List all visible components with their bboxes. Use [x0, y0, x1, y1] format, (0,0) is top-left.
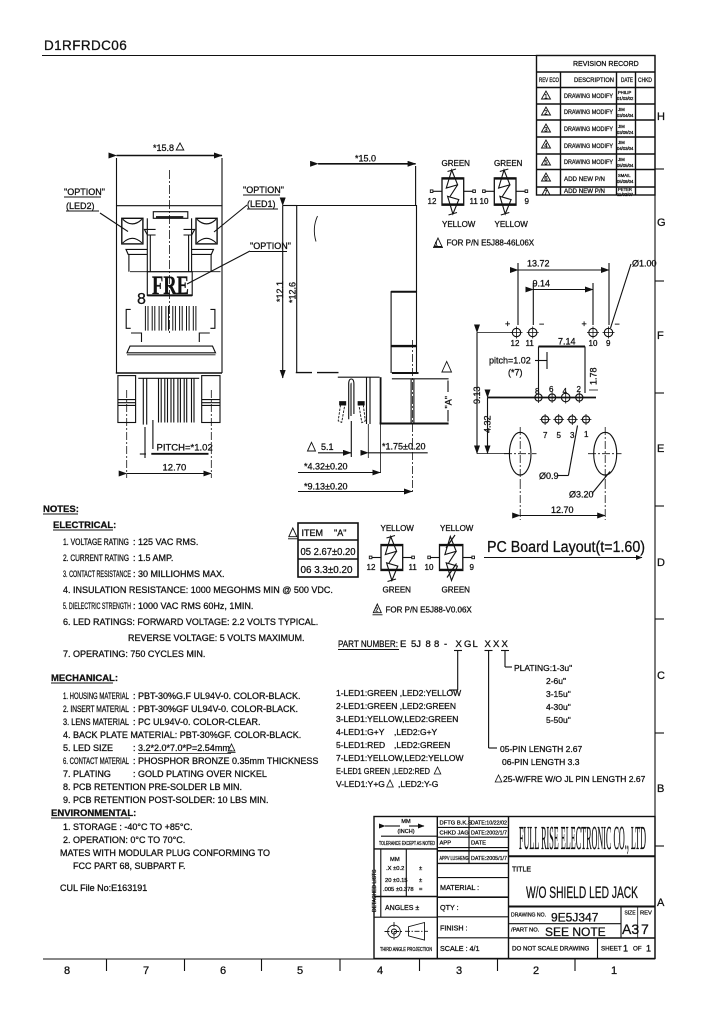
svg-text:10: 10: [589, 339, 598, 348]
svg-text:8: 8: [137, 291, 146, 308]
svg-text:12: 12: [428, 197, 437, 206]
svg-text:+: +: [505, 319, 510, 329]
svg-text:MATES WITH MODULAR PLUG CONFOR: MATES WITH MODULAR PLUG CONFORMING TO: [60, 848, 270, 858]
svg-text:4. INSULATION RESISTANCE: 1000: 4. INSULATION RESISTANCE: 1000 MEGOHMS M…: [63, 585, 333, 595]
svg-text:X: X: [456, 639, 463, 650]
svg-text:E-LED1 GREEN ,LED2:RED: E-LED1 GREEN ,LED2:RED: [336, 766, 430, 776]
svg-text:11/02/07: 11/02/07: [617, 192, 634, 197]
svg-text:OF: OF: [633, 946, 642, 953]
svg-text:"A": "A": [334, 528, 346, 538]
svg-text:*1.75±0.20: *1.75±0.20: [382, 442, 425, 452]
svg-text:9: 9: [470, 563, 475, 572]
footprint box 7.14: [558, 337, 576, 347]
svg-text:3. LENS MATERIAL: 3. LENS MATERIAL: [63, 717, 129, 727]
svg-text:ENVIRONMENTAL:: ENVIRONMENTAL:: [51, 808, 136, 819]
svg-text:4: 4: [563, 387, 568, 396]
pitch=1.02 (*7) label: [489, 356, 531, 378]
svg-text:C: C: [657, 670, 665, 682]
rear peg centerline: [412, 340, 414, 494]
svg-text:PC Board Layout(t=1.60): PC Board Layout(t=1.60): [487, 539, 645, 556]
svg-text:8: 8: [426, 639, 431, 650]
svg-text:2. CURRENT RATING: 2. CURRENT RATING: [63, 553, 129, 563]
svg-text:: 1.5 AMP.: : 1.5 AMP.: [133, 553, 173, 563]
svg-text:H: H: [657, 111, 665, 123]
dim *15.0: [355, 154, 376, 164]
svg-text:E: E: [400, 639, 406, 650]
svg-text:FCC PART 68, SUBPART F.: FCC PART 68, SUBPART F.: [73, 861, 186, 871]
svg-text:,LED2:Y-G: ,LED2:Y-G: [398, 779, 438, 789]
svg-text:04/03/04: 04/03/04: [617, 146, 634, 151]
svg-text:APPV LUSHENG: APPV LUSHENG: [440, 856, 469, 862]
svg-text:5. DIELECTRIC STRENGTH: 5. DIELECTRIC STRENGTH: [63, 601, 131, 611]
A reference top line: [392, 378, 449, 380]
svg-text:: 3.2*2.0*7.0*P=2.54mm.: : 3.2*2.0*7.0*P=2.54mm.: [133, 743, 232, 753]
left column: units and tolerance: [380, 849, 382, 917]
svg-text:1: 1: [435, 242, 438, 248]
dim 5.1 with rev triangle: [308, 442, 316, 451]
svg-text:(LED2): (LED2): [66, 201, 95, 211]
svg-text:A3: A3: [622, 921, 639, 937]
svg-text:9.14: 9.14: [533, 279, 551, 289]
svg-text:B: B: [657, 783, 664, 795]
ENVIRONMENTAL heading: [51, 808, 136, 819]
PC Board Layout title: [487, 539, 645, 556]
revision rows: triangles, descriptions, dates: [564, 93, 613, 195]
svg-text:1: 1: [623, 944, 628, 954]
svg-text:"A": "A": [444, 396, 454, 408]
svg-text:8: 8: [64, 965, 70, 977]
svg-text:X: X: [502, 639, 509, 650]
svg-text:PHILIP: PHILIP: [618, 90, 631, 95]
frame right line: [654, 56, 656, 960]
svg-text:6. LED RATINGS: FORWARD VOLTAG: 6. LED RATINGS: FORWARD VOLTAGE: 2.2 VOL…: [63, 617, 318, 627]
dim Ø1.00 with leader: [632, 259, 657, 269]
svg-text:GREEN: GREEN: [442, 159, 471, 168]
LED pin 9: [603, 327, 615, 339]
svg-text:: 125 VAC RMS.: : 125 VAC RMS.: [133, 537, 198, 547]
frame top line: [42, 55, 655, 57]
svg-text:(INCH): (INCH): [397, 829, 414, 835]
svg-text:2: 2: [577, 385, 582, 394]
latch hook arch: [349, 379, 354, 419]
middle column rows: [468, 817, 470, 864]
ITEM "A" table: [298, 523, 358, 577]
svg-text:FINISH :: FINISH :: [440, 924, 468, 933]
svg-text:7: 7: [143, 965, 149, 977]
svg-text:JIM: JIM: [618, 140, 625, 145]
PART NUMBER heading: [338, 639, 509, 650]
label OPTION (LED1): [243, 185, 284, 209]
rev triangle at item table: [289, 528, 297, 537]
contact row line: [488, 397, 597, 399]
extension lines LED pins: [517, 263, 519, 325]
7 contact pins bottom: [143, 378, 194, 424]
svg-text:DATE:2005/1/7: DATE:2005/1/7: [471, 856, 507, 862]
svg-text:10: 10: [425, 563, 434, 572]
drawing no row: [511, 913, 546, 919]
dim *9.13±0.20: [304, 482, 347, 492]
svg-text:DRAWING MODIFY: DRAWING MODIFY: [564, 109, 613, 116]
svg-text:MATERIAL :: MATERIAL :: [440, 883, 479, 892]
svg-text:(LED1): (LED1): [247, 199, 276, 209]
body bottom dashes: [296, 372, 312, 374]
svg-text:05/05/04: 05/05/04: [617, 163, 634, 168]
plating code list: [514, 663, 572, 725]
svg-text:QTY :: QTY :: [440, 903, 459, 912]
zone ticks bottom border: [107, 959, 576, 971]
svg-text:03/04/04: 03/04/04: [617, 113, 634, 118]
latch feet: [338, 405, 345, 423]
svg-text:±: ±: [419, 878, 422, 884]
svg-text:REVISION RECORD: REVISION RECORD: [573, 61, 639, 68]
svg-text:7: 7: [641, 921, 649, 937]
bottom thick reference line: [380, 423, 449, 425]
svg-text:pitch=1.02: pitch=1.02: [489, 356, 531, 366]
svg-text:*12.6: *12.6: [288, 282, 298, 303]
svg-text:REV ECO: REV ECO: [539, 77, 559, 84]
svg-text:GREEN: GREEN: [494, 159, 523, 168]
title: [512, 867, 531, 874]
pitch dim extension lines: [144, 427, 146, 458]
note triangle for P/N E5J88-V0.06X: [373, 604, 381, 613]
svg-text:4: 4: [377, 965, 383, 977]
svg-text:G: G: [657, 217, 666, 229]
svg-text:1: 1: [611, 965, 617, 977]
dim Ø3.20 leader: [569, 490, 594, 500]
svg-text:+: +: [582, 319, 587, 329]
svg-text:W/O SHIELD LED JACK: W/O SHIELD LED JACK: [526, 884, 638, 902]
svg-text:1. VOLTAGE RATING: 1. VOLTAGE RATING: [63, 537, 129, 547]
svg-text:13.72: 13.72: [527, 259, 550, 269]
svg-text:YELLOW: YELLOW: [381, 524, 415, 533]
front shelf under body: [338, 376, 380, 378]
svg-text:REVERSE VOLTAGE: 5 VOLTS MAXIM: REVERSE VOLTAGE: 5 VOLTS MAXIMUM.: [128, 633, 305, 643]
svg-text:"OPTION": "OPTION": [64, 187, 105, 197]
svg-text:YELLOW: YELLOW: [495, 220, 529, 229]
jack body outline: [117, 206, 223, 373]
svg-text:MM: MM: [390, 857, 400, 863]
svg-text:JIM: JIM: [618, 124, 625, 129]
label OPTION (logo): [250, 241, 291, 251]
note triangle for P/N E5J88-46L06X: [434, 238, 442, 247]
svg-text:DATE: DATE: [621, 77, 633, 84]
dim 12.70: [163, 463, 187, 474]
svg-text:2. OPERATION: 0°C TO 70°C.: 2. OPERATION: 0°C TO 70°C.: [63, 835, 185, 845]
zone ticks right border: [655, 169, 664, 846]
contact comb 8 contacts: [145, 306, 196, 331]
svg-text:8: 8: [434, 639, 439, 650]
svg-text:7. PLATING: 7. PLATING: [63, 769, 111, 779]
bottom row: [512, 946, 590, 953]
svg-text:1: 1: [646, 944, 651, 954]
svg-text:*4.32±0.20: *4.32±0.20: [304, 462, 347, 472]
pin length code list: [500, 744, 646, 784]
svg-text:2-6u": 2-6u": [546, 676, 566, 686]
option code branch lines: [457, 651, 459, 690]
svg-text:10: 10: [480, 197, 489, 206]
svg-text:4-30u": 4-30u": [546, 702, 571, 712]
svg-text:.X ±0.2: .X ±0.2: [386, 866, 404, 872]
svg-text:11: 11: [409, 563, 418, 572]
FRE logo text: [152, 271, 189, 300]
svg-text:*9.13±0.20: *9.13±0.20: [304, 482, 347, 492]
svg-text:25-W/FRE W/O JL PIN LENGTH 2.6: 25-W/FRE W/O JL PIN LENGTH 2.67: [503, 774, 646, 784]
svg-text:8: 8: [535, 387, 540, 396]
zone letters H..A on right border: [657, 111, 666, 909]
svg-text:SCALE : 4/1: SCALE : 4/1: [440, 944, 480, 953]
svg-text:1.78: 1.78: [589, 367, 599, 385]
svg-text:X: X: [485, 639, 492, 650]
svg-text:ADD NEW P/N: ADD NEW P/N: [564, 188, 605, 195]
LED pin 12: [511, 327, 523, 339]
contact pins row 8,6,4,2: [535, 392, 583, 404]
svg-text:Ø0.9: Ø0.9: [539, 471, 559, 481]
environmental notes text: [60, 822, 270, 893]
svg-text:E: E: [657, 443, 664, 455]
svg-text:REV: REV: [640, 911, 652, 917]
svg-text:: PBT-30%GF UL94V-0. COLOR-BLA: : PBT-30%GF UL94V-0. COLOR-BLACK.: [133, 704, 298, 714]
svg-text:7.14: 7.14: [558, 337, 576, 347]
svg-text:: PHOSPHOR BRONZE 0.35mm THICK: : PHOSPHOR BRONZE 0.35mm THICKNESS: [133, 756, 318, 766]
svg-text:TITLE: TITLE: [512, 867, 531, 874]
svg-text:DRAWING MODIFY: DRAWING MODIFY: [564, 143, 613, 150]
svg-text:"OPTION": "OPTION": [243, 185, 284, 195]
svg-text:JIM: JIM: [618, 107, 625, 112]
vertical dim line *12.6: [282, 206, 284, 379]
svg-text:DATE:2002/1/7: DATE:2002/1/7: [471, 831, 507, 837]
svg-text:SMAIL: SMAIL: [618, 173, 631, 178]
third angle projection symbols: [385, 922, 429, 941]
LED pin 11: [527, 327, 539, 339]
svg-text:4.32: 4.32: [483, 415, 493, 433]
rev triangle pin length: [495, 775, 502, 782]
svg-text:1. STORAGE : -40°C TO +85°C.: 1. STORAGE : -40°C TO +85°C.: [63, 822, 193, 832]
svg-text:FRE: FRE: [152, 271, 189, 300]
body bottom line: [116, 372, 222, 374]
step left: [131, 333, 142, 342]
latch ears: [144, 229, 155, 235]
svg-text:5J: 5J: [411, 639, 421, 650]
svg-text:-: -: [444, 639, 447, 650]
rear block: [391, 292, 416, 346]
svg-text:3-15u": 3-15u": [546, 689, 571, 699]
svg-text:NOTES:: NOTES:: [43, 504, 79, 515]
svg-text:7. OPERATING: 750 CYCLES MIN.: 7. OPERATING: 750 CYCLES MIN.: [63, 649, 205, 659]
svg-text:CHKD JAG: CHKD JAG: [440, 831, 470, 837]
rev triangle near A: [442, 362, 452, 373]
svg-text:7-LED1:YELLOW,LED2:YELLOW: 7-LED1:YELLOW,LED2:YELLOW: [336, 753, 464, 763]
A dim bracket: [447, 381, 449, 393]
latch pads: [340, 402, 346, 405]
pcb lock flange left: [126, 309, 131, 328]
svg-text:D: D: [657, 557, 665, 569]
dim *4.32±0.20: [304, 462, 347, 472]
NOTES heading: [43, 504, 79, 515]
dim 13.72: [527, 259, 550, 269]
svg-text:12.70: 12.70: [163, 463, 187, 474]
svg-text:05-PIN LENGTH 2.67: 05-PIN LENGTH 2.67: [500, 744, 582, 754]
svg-text:3. CONTACT RESISTANCE: 3. CONTACT RESISTANCE: [63, 569, 131, 579]
svg-text:,LED2:GREEN: ,LED2:GREEN: [394, 740, 450, 750]
svg-text:ITEM: ITEM: [302, 528, 324, 538]
dim PITCH=*1.02: [157, 443, 213, 454]
svg-text:,LED2:G+Y: ,LED2:G+Y: [394, 727, 438, 737]
svg-text:FOR P/N E5J88-46L06X: FOR P/N E5J88-46L06X: [447, 239, 535, 248]
diode down yellow: [448, 196, 459, 214]
svg-text:20 ±0.15: 20 ±0.15: [385, 878, 408, 884]
svg-text:DATE: DATE: [471, 841, 486, 847]
svg-text:03/09/24: 03/09/24: [617, 130, 634, 135]
svg-text:6: 6: [549, 385, 554, 394]
svg-text:.005 ±0.378: .005 ±0.378: [383, 887, 414, 893]
svg-text:ELECTRICAL:: ELECTRICAL:: [53, 520, 116, 531]
zone numbers 8..1 on bottom border: [64, 965, 617, 977]
svg-text:Ø3.20: Ø3.20: [569, 490, 594, 500]
rear block lower edge thick vertical: [380, 377, 382, 423]
svg-text:/PART NO.: /PART NO.: [511, 928, 540, 934]
leader to LED2: [100, 213, 128, 232]
svg-text:9.13: 9.13: [472, 386, 482, 404]
svg-text:3: 3: [456, 965, 462, 977]
svg-text:G: G: [464, 639, 471, 650]
svg-text:*12.1: *12.1: [275, 281, 285, 302]
leader to FRE logo: [187, 251, 250, 284]
svg-text:JIM: JIM: [618, 157, 625, 162]
svg-text:L: L: [473, 639, 478, 650]
lower shelf: [138, 377, 199, 379]
svg-text:7: 7: [543, 431, 548, 440]
dim 12.70 bottom: [551, 505, 574, 515]
svg-text:SHEET: SHEET: [601, 946, 622, 953]
company name: [519, 820, 646, 857]
svg-text:3: 3: [570, 431, 575, 440]
svg-text:6. CONTACT MATERIAL: 6. CONTACT MATERIAL: [63, 756, 129, 766]
pcb lock flange right: [210, 309, 215, 328]
svg-text:2. INSERT MATERIAL: 2. INSERT MATERIAL: [63, 704, 129, 714]
MECHANICAL heading: [51, 673, 118, 684]
shelf line: [130, 271, 221, 273]
svg-text:05/08/04: 05/08/04: [617, 179, 634, 184]
svg-text:YELLOW: YELLOW: [440, 524, 474, 533]
svg-text:: GOLD PLATING OVER NICKEL: : GOLD PLATING OVER NICKEL: [133, 769, 267, 779]
svg-text:9E5J347: 9E5J347: [551, 911, 599, 925]
svg-text:PITCH=*1.02: PITCH=*1.02: [157, 443, 213, 454]
svg-text:FULL RISE ELECTRONIC CO., LTD: FULL RISE ELECTRONIC CO., LTD: [519, 820, 646, 857]
diode up green: [446, 170, 457, 188]
svg-text:: 30 MILLIOHMS MAX.: : 30 MILLIOHMS MAX.: [133, 569, 225, 579]
left solder post: [118, 376, 136, 423]
svg-text:DFTG B.K.S: DFTG B.K.S: [440, 821, 472, 827]
electrical notes text: [63, 537, 333, 659]
svg-text:DESCRIPTION: DESCRIPTION: [574, 77, 614, 84]
label OPTION (LED2): [64, 187, 105, 211]
svg-text:2: 2: [375, 608, 378, 614]
svg-text:5-50u": 5-50u": [546, 715, 571, 725]
LED2 lens left: [122, 218, 143, 244]
svg-text:DRAWING MODIFY: DRAWING MODIFY: [564, 126, 613, 133]
top edge extension to dim line: [283, 205, 297, 207]
svg-text:9. PCB RETENTION POST-SOLDER:: 9. PCB RETENTION POST-SOLDER: 10 LBS MIN…: [63, 795, 269, 805]
svg-text:CHKD: CHKD: [638, 77, 652, 84]
svg-text:ANGLES ±: ANGLES ±: [385, 905, 419, 912]
svg-text:V-LED1:Y+G: V-LED1:Y+G: [336, 779, 385, 789]
svg-text:DETACHED LISTS: DETACHED LISTS: [372, 869, 378, 912]
dim Ø0.9 leader: [539, 471, 559, 481]
left dim lines 9.13 / 4.32: [476, 333, 478, 454]
svg-text:GREEN: GREEN: [383, 586, 412, 595]
svg-text:9: 9: [606, 339, 611, 348]
svg-text:1. HOUSING MATERIAL: 1. HOUSING MATERIAL: [63, 691, 129, 701]
dim 1.78 rotated: [589, 367, 599, 385]
svg-text:−: −: [615, 319, 620, 329]
svg-text:DRAWING MODIFY: DRAWING MODIFY: [564, 93, 613, 100]
revision record table: [537, 56, 656, 196]
svg-text:APP: APP: [440, 841, 452, 847]
centerline front view: [169, 170, 171, 334]
digit 8 contact count: [137, 291, 146, 308]
svg-text:−: −: [539, 319, 544, 329]
svg-text:FOR P/N E5J88-V0.06X: FOR P/N E5J88-V0.06X: [386, 606, 473, 615]
svg-text:4. BACK PLATE MATERIAL: PBT-30: 4. BACK PLATE MATERIAL: PBT-30%GF. COLOR…: [63, 730, 301, 740]
svg-text:THIRD ANGLE PROJECTION: THIRD ANGLE PROJECTION: [380, 947, 432, 953]
LED circuit symbol D4 (pins 10-9, option): [425, 524, 475, 595]
svg-text:2-LED1:GREEN ,LED2:GREEN: 2-LED1:GREEN ,LED2:GREEN: [336, 701, 456, 711]
svg-text:5-LED1:RED: 5-LED1:RED: [336, 740, 385, 750]
svg-text:2: 2: [533, 965, 539, 977]
svg-text:(*7): (*7): [508, 368, 523, 378]
svg-text:5: 5: [297, 965, 303, 977]
size rev box: [620, 907, 622, 939]
svg-text:6: 6: [220, 965, 226, 977]
mounting hole left: [509, 432, 531, 475]
leader to LED1: [214, 205, 247, 232]
svg-text:06 3.3±0.20: 06 3.3±0.20: [301, 564, 353, 576]
dim *12.6 rotated: [288, 282, 298, 303]
dim 9.14: [533, 279, 551, 289]
TITLE BLOCK: [374, 817, 655, 959]
LED1 lens right: [196, 218, 217, 244]
solder pin pair: [366, 377, 368, 424]
LED color code list: [336, 688, 464, 789]
dim *1.75±0.20: [382, 442, 425, 452]
side wing left: [126, 249, 147, 254]
svg-text:YELLOW: YELLOW: [442, 220, 476, 229]
svg-text:8. PCB RETENTION PRE-SOLDER LB: 8. PCB RETENTION PRE-SOLDER LB MIN.: [63, 782, 242, 792]
rear peg: [410, 379, 412, 424]
svg-text:MM: MM: [401, 819, 411, 825]
svg-text:CUL File No:E163191: CUL File No:E163191: [60, 883, 147, 893]
side wing right: [192, 249, 214, 254]
dim *15.8 with rev triangle: [153, 143, 174, 153]
LED pin 10: [587, 327, 599, 339]
LED circuit symbol D3 (pins 12-11, option): [367, 524, 418, 595]
LED pin numbers: [511, 339, 612, 348]
svg-text:DATE:10/22/02: DATE:10/22/02: [471, 821, 507, 827]
mounting hole right: [594, 432, 617, 475]
svg-text:ADD NEW P/N: ADD NEW P/N: [564, 176, 605, 183]
svg-text:5.1: 5.1: [321, 442, 334, 452]
svg-text:11: 11: [470, 197, 479, 206]
dim *12.1 rotated: [275, 281, 285, 302]
svg-text:11: 11: [526, 339, 535, 348]
svg-text:PART NUMBER:: PART NUMBER:: [338, 639, 398, 650]
svg-text:SIZE: SIZE: [625, 911, 636, 917]
svg-text:5. LED SIZE: 5. LED SIZE: [63, 743, 113, 753]
svg-text:F: F: [657, 330, 664, 342]
leads: [433, 190, 443, 192]
latch top block: [153, 212, 188, 219]
svg-text:: PC UL94V-0. COLOR-CLEAR.: : PC UL94V-0. COLOR-CLEAR.: [133, 717, 261, 727]
